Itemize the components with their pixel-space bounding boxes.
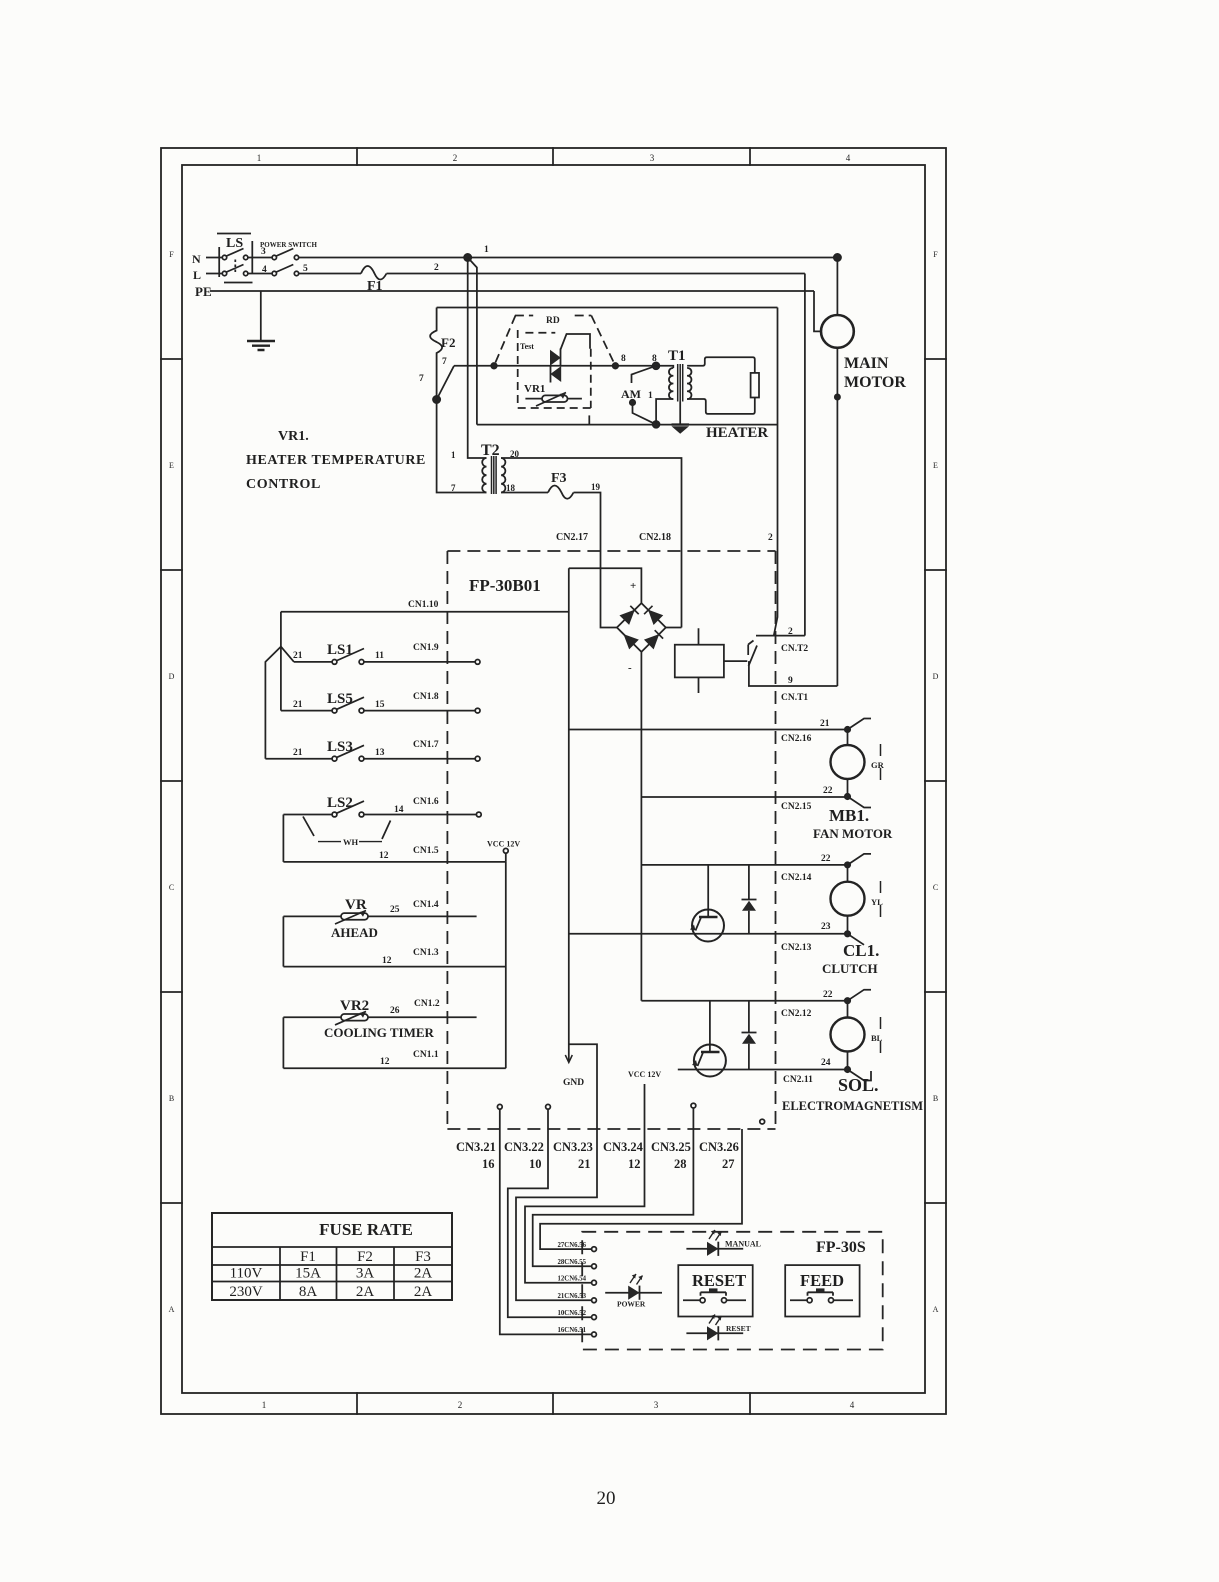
svg-text:LS2: LS2 (327, 795, 353, 811)
heater control box top edge (437, 307, 778, 309)
svg-text:FEED: FEED (800, 1271, 844, 1290)
wire N mid (248, 257, 272, 259)
svg-text:+: + (630, 580, 636, 592)
potentiometer VR2 body (341, 1014, 368, 1021)
board FP-30B01 dashed border right (775, 551, 777, 1129)
svg-text:12: 12 (382, 956, 392, 966)
svg-text:RD: RD (546, 316, 560, 326)
triac upper triangle (550, 350, 561, 366)
wire relay common to CN.T1 (749, 661, 838, 686)
svg-text:FAN MOTOR: FAN MOTOR (813, 826, 893, 841)
svg-text:2: 2 (458, 1400, 463, 1410)
svg-text:F2: F2 (441, 335, 455, 350)
svg-text:10: 10 (529, 1157, 542, 1171)
svg-text:2A: 2A (414, 1266, 433, 1282)
svg-text:CN1.9: CN1.9 (413, 643, 439, 653)
frame row ticks right (925, 359, 946, 1203)
svg-text:FP-30B01: FP-30B01 (469, 576, 541, 595)
svg-text:T1: T1 (668, 348, 686, 364)
transistor Q1 collector (707, 865, 709, 917)
tick below VR1 box (588, 415, 590, 424)
wire F2 junction diagonal to main line (437, 366, 454, 400)
wire L mid (248, 273, 272, 275)
wire T1 secondary top to heater (687, 357, 755, 414)
wire relay coil to contact (724, 660, 747, 662)
diode D1 flyback (742, 865, 757, 934)
svg-text:8: 8 (621, 354, 626, 364)
connector contact fan bottom (848, 797, 872, 808)
svg-text:19: 19 (591, 482, 601, 492)
heater element resistor (751, 373, 759, 398)
svg-text:7: 7 (419, 374, 424, 384)
wire CN1.3 (283, 966, 505, 968)
svg-text:5: 5 (303, 264, 308, 274)
potentiometer VR body (341, 913, 368, 920)
terminal CN3.21 (497, 1104, 502, 1109)
wire N to main motor (299, 257, 838, 259)
svg-text:2: 2 (788, 627, 793, 637)
svg-text:A: A (169, 1305, 175, 1314)
contact power switch pole 4 (272, 271, 276, 275)
LED RESET wire (686, 1332, 743, 1334)
node on motor bottom wire (835, 394, 840, 399)
wire F2 junction down to T2 pin 7 (437, 400, 487, 493)
switch LS3 (265, 758, 332, 760)
fuse F1 (361, 266, 387, 280)
svg-text:ELECTROMAGNETISM: ELECTROMAGNETISM (782, 1099, 923, 1113)
svg-text:1: 1 (451, 450, 456, 460)
relay coil stubs (698, 628, 700, 693)
diode D2 triangle (742, 1034, 756, 1044)
contact LS pole L (222, 271, 226, 275)
diode D2 flyback (742, 1001, 757, 1070)
wire CN3.25 (533, 1108, 694, 1266)
svg-text:15A: 15A (295, 1266, 321, 1282)
wire junction1 branch down (heater loop left inner) (468, 258, 477, 425)
terminal CN1.8 (475, 708, 480, 713)
svg-text:SOL.: SOL. (838, 1075, 879, 1095)
load MB1 fan motor circle (831, 745, 865, 779)
svg-text:CN3.26: CN3.26 (699, 1140, 739, 1154)
svg-text:D: D (933, 672, 939, 681)
svg-text:T2: T2 (481, 442, 500, 459)
wire 2 from F1 to corner (387, 273, 805, 275)
svg-text:F3: F3 (551, 471, 567, 486)
svg-text:LS1: LS1 (327, 642, 353, 658)
svg-text:POWER: POWER (617, 1300, 646, 1309)
svg-text:CN2.13: CN2.13 (781, 943, 812, 953)
button RESET nub (709, 1288, 718, 1292)
svg-text:VR2: VR2 (340, 998, 369, 1014)
svg-text:LS5: LS5 (327, 691, 353, 707)
svg-text:22: 22 (823, 990, 833, 1000)
potentiometer VR1 arrow (536, 393, 566, 407)
svg-text:CN1.2: CN1.2 (414, 999, 440, 1009)
svg-text:21CN6.53: 21CN6.53 (557, 1293, 586, 1300)
bridge diode top-left (621, 611, 633, 623)
svg-text:28: 28 (674, 1157, 687, 1171)
border frame inner (182, 165, 925, 1393)
transistor Q2 circle (694, 1045, 726, 1077)
svg-text:20: 20 (510, 449, 520, 459)
wire GND branch to CN3.23 (516, 1044, 597, 1300)
terminal pins FP-30S (592, 1247, 597, 1252)
svg-text:10CN6.52: 10CN6.52 (557, 1310, 586, 1317)
contact LS pole N (222, 255, 226, 259)
triac lower triangle (550, 366, 561, 382)
fuse F2 on left edge (430, 308, 442, 400)
svg-text:1: 1 (484, 245, 489, 255)
wire CN1.5 (283, 861, 505, 863)
transistor Q1 base bar (699, 916, 718, 919)
svg-text:L: L (193, 268, 201, 282)
dashed trapezoid RD left diagonal (494, 316, 516, 366)
svg-text:1: 1 (257, 153, 262, 163)
transistor Q2 collector (709, 1001, 711, 1052)
svg-text:CN1.1: CN1.1 (413, 1050, 439, 1060)
dashed box VR1 bottom (518, 407, 591, 409)
svg-text:CLUTCH: CLUTCH (822, 961, 878, 976)
wire CN.T2 (756, 635, 805, 637)
svg-text:CN3.23: CN3.23 (553, 1140, 593, 1154)
triac bars (551, 349, 561, 383)
svg-text:28CN6.55: 28CN6.55 (557, 1259, 586, 1266)
fuse F3 (548, 486, 574, 499)
ground PE (247, 341, 275, 350)
svg-text:16: 16 (482, 1157, 495, 1171)
svg-text:VCC 12V: VCC 12V (628, 1070, 661, 1079)
node AM common 8 (653, 362, 660, 369)
svg-text:CN1.3: CN1.3 (413, 948, 439, 958)
dashed trapezoid RD top (515, 315, 591, 317)
svg-text:16CN6.51: 16CN6.51 (557, 1327, 586, 1334)
svg-text:21: 21 (578, 1157, 591, 1171)
svg-text:1: 1 (262, 1400, 267, 1410)
wire fan bottom (847, 779, 849, 797)
wire CN2.16 fan motor (569, 729, 845, 731)
transformer T2 core (492, 456, 497, 494)
node junction motor top (834, 254, 841, 261)
potentiometer VR arrow (335, 911, 366, 925)
svg-text:18: 18 (506, 483, 516, 493)
dashed box VR1 top (525, 332, 555, 334)
svg-text:-: - (628, 662, 632, 674)
svg-text:21: 21 (293, 700, 303, 710)
bridge diode bottom-right (646, 636, 658, 648)
node RD right (613, 363, 619, 369)
svg-text:CN2.18: CN2.18 (639, 532, 671, 543)
wire GND bus (568, 568, 570, 1061)
svg-text:VR: VR (345, 897, 367, 913)
transistor Q1 emitter (696, 918, 702, 931)
svg-text:HEATER: HEATER (706, 425, 768, 441)
table FUSE RATE column lines (280, 1247, 394, 1300)
node junction 1 on N (464, 254, 471, 261)
svg-text:2: 2 (453, 153, 458, 163)
svg-text:F1: F1 (300, 1249, 316, 1265)
transistor Q1 circle (692, 910, 724, 942)
wire LS2 column to CN1.5 (282, 815, 284, 862)
svg-text:4: 4 (846, 153, 851, 163)
svg-text:24: 24 (821, 1058, 831, 1068)
svg-text:E: E (169, 461, 174, 470)
table FUSE RATE row lines (212, 1247, 452, 1282)
svg-text:CL1.: CL1. (843, 941, 879, 960)
board FP-30B01 dashed border bottom (447, 1128, 775, 1130)
svg-text:4: 4 (850, 1400, 855, 1410)
svg-text:RESET: RESET (692, 1271, 746, 1290)
node clutch bottom contact (845, 931, 850, 936)
connector contact clutch top (848, 854, 872, 865)
svg-text:CN2.11: CN2.11 (783, 1075, 813, 1085)
svg-text:CN1.5: CN1.5 (413, 846, 439, 856)
border frame outer (161, 148, 946, 1414)
transistor Q2 base bar (701, 1051, 720, 1054)
load CL1 clutch circle (831, 882, 865, 916)
svg-text:3: 3 (654, 1400, 659, 1410)
svg-text:RESET: RESET (726, 1324, 751, 1333)
frame column ticks bottom (357, 1393, 750, 1414)
svg-text:20: 20 (597, 1488, 616, 1509)
triac VR1 gate loop (561, 334, 591, 350)
wire sol bottom (847, 1052, 849, 1070)
svg-text:27: 27 (722, 1157, 735, 1171)
wire left bus upper (280, 612, 282, 647)
frame column ticks top (357, 148, 750, 165)
dashed trapezoid RD right diagonal (591, 316, 615, 366)
svg-text:B: B (169, 1094, 174, 1103)
svg-text:CN3.21: CN3.21 (456, 1140, 496, 1154)
LED POWER wire (605, 1292, 662, 1294)
svg-text:N: N (192, 252, 201, 266)
potentiometer VR2 arrowhead (360, 1011, 367, 1017)
svg-text:CN2.12: CN2.12 (781, 1009, 812, 1019)
svg-text:21: 21 (820, 719, 830, 729)
wire CN2.11 emitter line (678, 1069, 845, 1071)
svg-text:CN1.6: CN1.6 (413, 797, 439, 807)
dashed box VR1 right (590, 349, 592, 408)
transformer T2 primary coil (482, 458, 486, 492)
svg-text:F: F (933, 250, 938, 259)
svg-text:12: 12 (628, 1157, 641, 1171)
LED MANUAL arrows (709, 1230, 722, 1241)
connector dashes clutch (880, 881, 882, 917)
svg-text:CN.T1: CN.T1 (781, 693, 808, 703)
svg-text:VR1: VR1 (524, 383, 545, 395)
svg-text:230V: 230V (229, 1284, 263, 1300)
svg-text:MANUAL: MANUAL (725, 1240, 761, 1249)
svg-text:12CN6.54: 12CN6.54 (557, 1276, 586, 1283)
svg-text:WH: WH (343, 837, 359, 847)
table FUSE RATE outer (212, 1213, 452, 1300)
contact power switch pole 3 (272, 255, 276, 259)
button FEED contacts (790, 1299, 853, 1301)
svg-text:MOTOR: MOTOR (844, 374, 906, 391)
potentiometer VR wires (283, 915, 476, 917)
svg-text:3: 3 (261, 247, 266, 257)
LED MANUAL triangle (707, 1242, 718, 1256)
svg-text:15: 15 (375, 700, 385, 710)
wire CN3.21 (500, 1109, 592, 1334)
wire F3 to CN2.17 (574, 493, 617, 628)
button RESET actuator (701, 1292, 727, 1296)
switch LS5 (281, 710, 332, 712)
relay contact blade (749, 646, 758, 667)
LED RESET triangle (707, 1326, 718, 1340)
svg-text:PE: PE (195, 284, 212, 299)
wire main triac line (454, 365, 656, 367)
LED MANUAL bar (717, 1242, 719, 1256)
svg-text:VR1.: VR1. (278, 429, 309, 444)
load SOL circle (831, 1018, 865, 1052)
wire AM arm lower (633, 403, 657, 425)
wire L to fuse F1 (299, 273, 361, 275)
node clutch top contact (845, 862, 850, 867)
svg-text:C: C (169, 883, 174, 892)
svg-text:27CN6.56: 27CN6.56 (557, 1242, 586, 1249)
wire bus to LS5 (280, 647, 282, 711)
heater control box bottom edge (477, 424, 778, 426)
svg-text:A: A (933, 1305, 939, 1314)
wire T2 pin20 to CN2.18 (501, 458, 681, 628)
svg-text:F3: F3 (415, 1249, 431, 1265)
bridge bottom drop (640, 652, 642, 1001)
svg-text:Test: Test (520, 342, 534, 351)
svg-text:23: 23 (821, 922, 831, 932)
svg-text:21: 21 (293, 748, 303, 758)
svg-text:AHEAD: AHEAD (331, 925, 378, 940)
node F2 bottom junction (433, 396, 440, 403)
svg-text:D: D (169, 672, 175, 681)
potentiometer VR2 arrow (335, 1011, 366, 1025)
bridge diode top-right (649, 611, 661, 623)
svg-text:25: 25 (390, 905, 400, 915)
node sol bottom contact (845, 1067, 850, 1072)
switch LS1 (294, 661, 332, 663)
svg-text:CN1.10: CN1.10 (408, 600, 439, 610)
ground under T1 (672, 423, 690, 425)
button FEED box (785, 1265, 859, 1316)
node sol top contact (845, 998, 850, 1003)
svg-text:CN3.24: CN3.24 (603, 1140, 644, 1154)
svg-text:22: 22 (821, 854, 831, 864)
motor M1 circle (821, 315, 854, 348)
svg-text:3A: 3A (356, 1266, 375, 1282)
relay contact stub (748, 641, 753, 656)
wire PE (210, 290, 814, 292)
bridge top riser (569, 568, 642, 603)
button FEED actuator (808, 1292, 834, 1296)
potentiometer VR2 wires (283, 1016, 476, 1018)
wire CN3.22 (508, 1109, 592, 1317)
terminal VCC 12V upper (503, 848, 508, 853)
transformer T1 primary coil (669, 368, 673, 399)
svg-text:VCC 12V: VCC 12V (487, 840, 520, 849)
wire T1 primary bottom loop (656, 399, 673, 424)
svg-text:E: E (933, 461, 938, 470)
wire motor left (PE) (814, 291, 821, 331)
svg-text:HEATER TEMPERATURE: HEATER TEMPERATURE (246, 453, 426, 468)
svg-text:8A: 8A (299, 1284, 318, 1300)
wire N lead (206, 257, 222, 259)
dashed box VR1 left (517, 330, 519, 408)
node AM lower contact (630, 400, 635, 405)
wire bus fork to LS1 (281, 647, 294, 662)
svg-text:FUSE RATE: FUSE RATE (319, 1220, 413, 1239)
svg-text:7: 7 (442, 357, 447, 367)
transformer T2 secondary coil (501, 458, 505, 492)
svg-text:110V: 110V (230, 1266, 263, 1282)
terminal CN3.22 (546, 1104, 551, 1109)
svg-text:YL: YL (871, 897, 883, 907)
frame row ticks left (161, 359, 182, 1203)
svg-text:LS3: LS3 (327, 739, 353, 755)
wire bus fork to LS3 column (265, 647, 281, 759)
node fan bottom contact (845, 794, 850, 799)
terminal CN1.6 (476, 812, 481, 817)
svg-text:8: 8 (652, 354, 657, 364)
potentiometer VR1 arrowhead (560, 393, 567, 399)
wire CN3.24 from VCC (525, 1084, 645, 1283)
LED POWER triangle (628, 1286, 639, 1300)
connector contact fan top (848, 719, 872, 730)
transformer T1 secondary coil (687, 368, 691, 399)
switch LS mechanical link (234, 260, 236, 273)
svg-text:CONTROL: CONTROL (246, 477, 321, 492)
LED RESET bar (717, 1326, 719, 1340)
svg-text:1: 1 (648, 391, 653, 401)
svg-text:CN3.22: CN3.22 (504, 1140, 544, 1154)
button FEED nub (816, 1288, 825, 1292)
wire CN3.26 (540, 1129, 742, 1249)
wire VR2 loop (282, 1017, 284, 1068)
terminal GND arrow (565, 1055, 572, 1063)
wire motor feed (836, 258, 838, 316)
transistor Q1 emitter arrowhead (690, 925, 696, 931)
svg-text:7: 7 (451, 483, 456, 493)
svg-text:CN.T2: CN.T2 (781, 644, 808, 654)
svg-text:GR: GR (871, 760, 885, 770)
potentiometer VR arrowhead (360, 911, 367, 917)
svg-text:CN2.14: CN2.14 (781, 873, 812, 883)
diode D1 triangle (742, 901, 756, 911)
wire PE earth drop (260, 291, 262, 340)
svg-text:MB1.: MB1. (829, 806, 869, 825)
svg-text:MAIN: MAIN (844, 355, 889, 372)
svg-text:CN1.7: CN1.7 (413, 740, 439, 750)
board FP-30B01 dashed border top (447, 550, 775, 552)
wire VCC column down (505, 862, 507, 1068)
terminal stray CN3.26 (760, 1119, 765, 1124)
svg-text:4: 4 (262, 265, 267, 275)
button RESET contacts (683, 1299, 746, 1301)
LED MANUAL wire (686, 1248, 743, 1250)
svg-text:C: C (933, 883, 938, 892)
connector contact clutch bottom (848, 934, 865, 945)
potentiometer VR1 body (542, 395, 568, 402)
svg-text:AM: AM (621, 387, 641, 401)
ground PE triangle under T1 (672, 426, 690, 434)
button RESET box (678, 1265, 752, 1316)
wire junction1 to T2 pin1 (468, 258, 487, 459)
wire T1 core to ground (679, 402, 681, 425)
transistor Q2 emitter arrowhead (692, 1060, 698, 1066)
wire CN2.12 solenoid (641, 1000, 845, 1002)
wire CN2.13 emitter line (569, 933, 845, 935)
svg-text:B: B (933, 1094, 938, 1103)
svg-text:CN2.16: CN2.16 (781, 734, 812, 744)
connector contact sol top (848, 990, 872, 1001)
